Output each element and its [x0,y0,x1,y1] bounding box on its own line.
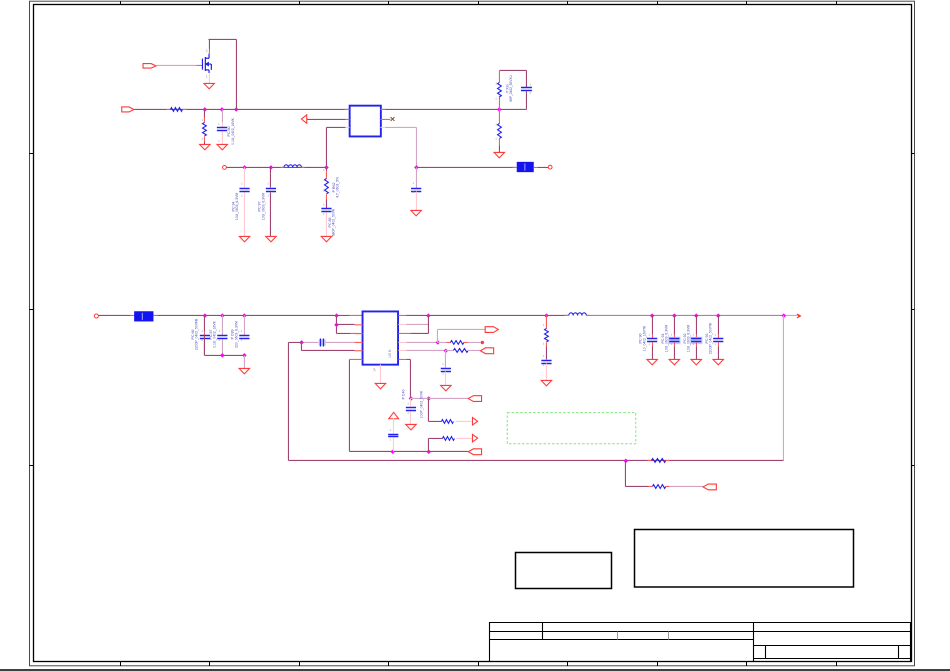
wire loop left [288,341,301,343]
border zone ticks bottom [121,662,837,667]
svg-text:1P: 1P [372,368,376,372]
wire tie to pin3 [336,332,350,334]
transistor Q1 nmos [202,54,211,73]
resistor R5 [498,123,502,138]
off-page connector J2 gate input [143,64,156,68]
pin U1-1 left [344,108,349,110]
svg-text:1: 1 [206,75,208,79]
off-page connector J4 [468,449,481,455]
wire U1 pin2 to out [306,118,345,120]
ground C10 [441,385,451,390]
capacitor C6 [521,87,532,90]
wire CC to ground [243,355,245,368]
node rail-CC [242,313,247,318]
ferrite bead FB1 [512,166,516,168]
up arrow connector J5 [389,412,399,418]
wire tie to pin2 [336,323,354,325]
inductor L2 [564,314,568,316]
ground C3 [266,236,276,241]
capacitor C7 series [319,339,326,345]
assembly note green box [507,413,636,444]
wire C2 branch [243,167,245,187]
node rail2-C3 [269,165,274,170]
node C7-loop [299,340,304,345]
ground C14 [691,359,701,364]
wire tie pins123 [335,315,337,333]
capacitor C15 [713,338,723,341]
pin U1-2 right no-connect stub [380,118,390,120]
capacitor C10 [441,368,451,371]
wire U2 row2 right [398,323,406,325]
wire C1 branch [221,109,223,122]
wire U2 row4 right [398,341,406,343]
node bus-R2 [203,107,208,112]
node railB-R11 [624,459,629,464]
node row1-v [426,313,431,318]
wire U2 bottom pin [379,364,381,383]
svg-text:680P_0402_50VK: 680P_0402_50VK [332,208,336,236]
wire R3 branch [325,167,327,170]
wire end circle src [94,314,98,318]
capacitor CA [200,335,210,338]
svg-text:0.1U_0402_16VK: 0.1U_0402_16VK [213,320,217,348]
wire R10 branch [545,315,547,328]
ground C5 [411,210,421,215]
node rail-CB [220,313,225,318]
node railA-C8 [390,449,395,454]
wire J5 to C8 [392,418,394,433]
wire R3-C4 [325,199,327,208]
node rail-CA [203,313,208,318]
wire rail A [349,450,468,452]
pin stubs U2 left [354,325,362,351]
wire U2 pin6 right [398,358,406,360]
capacitor CB [217,335,227,338]
capacitor C9 [406,407,416,410]
wire rows tie vertical [427,315,429,333]
node rail2-C2 [242,165,247,170]
wire tie pin5 [300,342,302,350]
wire divider branch up [498,96,500,109]
wire end circle FB1 [548,165,552,169]
node bus-C1 [220,107,225,112]
wire end marker [797,314,800,318]
wire after FB1 [537,166,548,168]
svg-text:2200P_0402_50VTK: 2200P_0402_50VTK [708,322,712,354]
ground C1 [217,144,227,149]
ground R5 [494,152,504,157]
wire R5 branch down [498,109,500,123]
wire C12 branch [651,315,653,334]
svg-text:4.7_0603_5%: 4.7_0603_5% [335,177,339,198]
arrow connector A2 [472,434,477,442]
node row5 [444,348,449,353]
wire pin3 down to rail [325,127,327,167]
wire C9 branch [409,398,411,406]
ground Q1 source [208,73,210,83]
svg-text:10U_0603_6.3VM: 10U_0603_6.3VM [686,325,690,353]
wire lower rail C [203,335,205,355]
capacitor C11 [541,360,551,363]
capacitor C1 [217,127,227,130]
wire C13 branch [673,315,675,334]
wire branch row 438 [427,438,429,451]
svg-text:10U_0603_6.3VM: 10U_0603_6.3VM [235,193,239,221]
off-page connector J3 output left [301,115,306,123]
pin number marks gray [201,82,716,441]
wire pin6 [349,358,362,360]
capacitor C14 [690,337,702,344]
arrow connector A1 [472,417,477,425]
wire rail2 [226,166,326,168]
pin U1-3 right [380,126,385,128]
ground C9 [406,424,416,429]
svg-text:2: 2 [206,49,208,53]
node railC-CB [220,353,225,358]
wire rail to U2 [157,314,336,316]
wire rail end [783,314,799,316]
resistor R11 [647,459,651,461]
off-page connector J7 out [485,327,498,333]
wire U2 row5 right [398,349,406,351]
wire CB branch [221,315,223,335]
capacitor C3 [266,188,276,191]
svg-text:220_0603_6.3VM: 220_0603_6.3VM [234,321,238,348]
wire row 398 [410,397,468,399]
wire U1 pin3 left [326,126,345,128]
node rail-U2tie [334,313,339,318]
sheet bottom edge line [0,669,950,671]
wire C3 branch [269,167,271,187]
resistor R10 vertical [545,328,549,341]
ground U2 [375,383,385,388]
resistor R3 [325,178,329,193]
wire Q1 drain loop [208,49,210,53]
resistor R1 on bus [166,108,170,110]
capacitor C4 [321,208,331,211]
ground C15 [713,359,723,364]
capacitor C12 [647,338,657,341]
node rail-C12 [650,313,655,318]
ground CC [239,368,249,373]
border zone ticks left [29,154,33,466]
wire branch railB down [624,460,626,486]
svg-text:100P_0402_50VK: 100P_0402_50VK [419,390,423,418]
svg-text:U5 B: U5 B [388,349,392,358]
wire gate [156,64,196,66]
node rail-R10 [544,313,549,318]
op-amp U1 regulator box [350,106,381,137]
ground C2 [239,236,249,241]
svg-text:2200P_0402_50VFB: 2200P_0402_50VFB [195,318,199,350]
node rail-C15 [716,313,721,318]
op-amp U2 controller box [363,311,399,364]
svg-text:10_0402_16VTK: 10_0402_16VTK [642,325,646,351]
wire loop right vertical [782,315,784,460]
resistor R6 [441,420,453,424]
svg-text:10U_0603_6.3VM: 10U_0603_6.3VM [261,193,265,221]
node rail-C14 [694,313,699,318]
ground C13 [669,359,679,364]
wire CC branch [243,315,245,335]
pin U1-1 right [380,108,385,110]
node row4 [436,340,441,345]
wire rail B [288,459,783,461]
wire CA branch [203,315,205,331]
node C5 rail [414,165,419,170]
resistor R2 [203,122,207,136]
off-page connector J9 [703,484,716,490]
wire row5 down [444,350,446,367]
no-connect X mark [391,117,395,121]
revision box large [635,530,854,588]
resistor R9 row5 [445,349,453,351]
node branch9 [426,396,431,401]
wire U1 pin3 right to C5 [385,126,416,128]
wire divider top [499,69,526,71]
ferrite bead FB2 [134,311,153,321]
capacitor CC [239,335,249,338]
ground C11 [541,380,551,385]
svg-text:P C40: P C40 [401,389,405,399]
capacitor C13 [668,337,680,344]
node railA-branch [426,449,431,454]
wire C7 series [325,341,354,343]
node rail-C13 [672,313,677,318]
title block outline [490,623,911,662]
off-page connector J6 [468,396,481,402]
wire end circle rail2 [223,166,227,170]
wire row4 up arm [436,329,438,342]
off-page connector J8 [480,348,493,354]
resistor R4 [498,82,502,96]
off-page connector J1 input [122,107,134,112]
wire R12 to J9 [669,485,703,487]
capacitor C5 [415,167,417,188]
node rail-loop [781,313,786,318]
node railC-CC [242,353,247,358]
border zone ticks right [912,154,915,466]
wire src to FB2 [98,314,130,316]
wire C15 branch [717,315,719,334]
resistor R7 [442,437,454,441]
wire branch row 421 [427,398,429,421]
wire end dot row4 [481,341,484,344]
revision box small [516,553,612,589]
wire R2 branch [203,109,205,117]
resistor R12 [648,485,652,487]
capacitor C2 [239,188,249,191]
wire U2 row1 right [398,314,406,316]
ground C4 [321,236,331,241]
wire C14 branch [695,315,697,334]
title block gray dividers [618,632,669,640]
wire rail to bead [416,166,516,168]
resistor R8 row4 [437,341,446,343]
wire main bus [134,108,526,110]
node tie-pin2 [334,323,339,328]
ground R2 [203,141,205,144]
capacitor C8 [388,434,398,436]
border zone ticks top [121,1,837,4]
node bus-Q1 [234,107,239,112]
node rail2-R3 [324,165,329,170]
inductor L1 [280,166,284,168]
svg-text:0.1U_0402_16VK: 0.1U_0402_16VK [231,117,235,145]
ground C12 [647,359,657,364]
svg-text:68P_0402_50VXU: 68P_0402_50VXU [509,75,513,102]
node C9 [409,396,414,401]
svg-text:10U_0603_6.3VM: 10U_0603_6.3VM [665,325,669,353]
node bus-divider [497,107,502,112]
wire U2 row3 right [398,332,410,334]
